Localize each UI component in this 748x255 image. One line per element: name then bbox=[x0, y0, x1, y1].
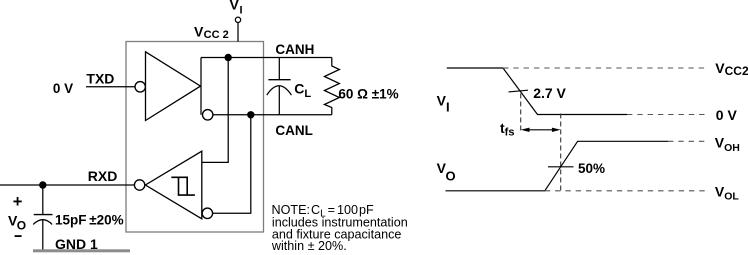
dashed reference VOH bbox=[668, 140, 709, 142]
waveform VO bbox=[446, 141, 669, 191]
wire CANH bbox=[201, 57, 332, 59]
svg-text:TXD: TXD bbox=[86, 71, 114, 87]
dashed reference VCC2 bbox=[503, 67, 709, 69]
driver output stem wire bbox=[200, 58, 202, 115]
svg-text:CANH: CANH bbox=[275, 42, 314, 57]
svg-text:60 Ω ±1%: 60 Ω ±1% bbox=[338, 87, 398, 102]
capacitor 15pF curved plate bbox=[33, 220, 52, 225]
dashed reference VOL bbox=[545, 190, 709, 192]
driver D1 triangle bbox=[146, 52, 201, 121]
dashed reference 0 V bbox=[627, 114, 709, 116]
tick 2.7 V crossing bbox=[509, 90, 529, 92]
svg-text:RXD: RXD bbox=[88, 168, 118, 184]
wire VI to VCC2 pin bbox=[237, 23, 239, 42]
driver input bubble bbox=[135, 82, 145, 92]
dashed vertical at 50% crossing bbox=[560, 114, 562, 191]
svg-text:2.7 V: 2.7 V bbox=[533, 85, 566, 101]
receiver output bubble bbox=[134, 180, 144, 190]
capacitor CL lead bottom bbox=[278, 86, 280, 115]
wire CANL node to receiver inverting input bbox=[213, 115, 251, 214]
IC box (device under test) bbox=[126, 42, 264, 233]
terminal VI circle bbox=[235, 17, 240, 22]
svg-text:15pF ±20%: 15pF ±20% bbox=[55, 213, 124, 228]
dashed vertical at 2.7V crossing bbox=[520, 94, 522, 134]
svg-text:50%: 50% bbox=[578, 161, 605, 176]
driver inverting output bubble bbox=[203, 110, 213, 120]
tfs arrow bbox=[521, 128, 561, 132]
capacitor CL top plate bbox=[268, 79, 290, 81]
resistor 60 ohm bbox=[324, 58, 339, 115]
svg-text:+: + bbox=[13, 193, 23, 211]
wire RXD bbox=[0, 184, 135, 186]
capacitor 15pF lead top bbox=[42, 185, 44, 215]
capacitor CL curved plate bbox=[267, 86, 292, 95]
svg-text:0 V: 0 V bbox=[53, 81, 73, 96]
svg-text:within ± 20%.: within ± 20%. bbox=[271, 239, 347, 253]
tick 50% crossing bbox=[548, 166, 574, 168]
receiver R1 triangle bbox=[145, 151, 201, 219]
label minus bbox=[15, 235, 22, 237]
receiver inverting input bubble bbox=[202, 208, 212, 218]
svg-text:0 V: 0 V bbox=[716, 107, 738, 123]
node CANH junction bbox=[225, 54, 232, 61]
wire TXD bbox=[86, 86, 135, 88]
node CANL junction bbox=[247, 111, 254, 118]
capacitor CL lead top bbox=[278, 58, 280, 80]
capacitor 15pF top plate bbox=[34, 214, 53, 216]
wire CANH node to receiver input bbox=[202, 58, 228, 163]
node RXD junction bbox=[39, 181, 46, 188]
capacitor 15pF lead bottom bbox=[42, 220, 44, 250]
wire CANL bbox=[213, 114, 332, 116]
hysteresis symbol bbox=[171, 177, 195, 195]
ground GND 1 bar bbox=[33, 249, 130, 252]
svg-text:CANL: CANL bbox=[275, 123, 313, 138]
waveform VI high level bbox=[447, 68, 627, 115]
